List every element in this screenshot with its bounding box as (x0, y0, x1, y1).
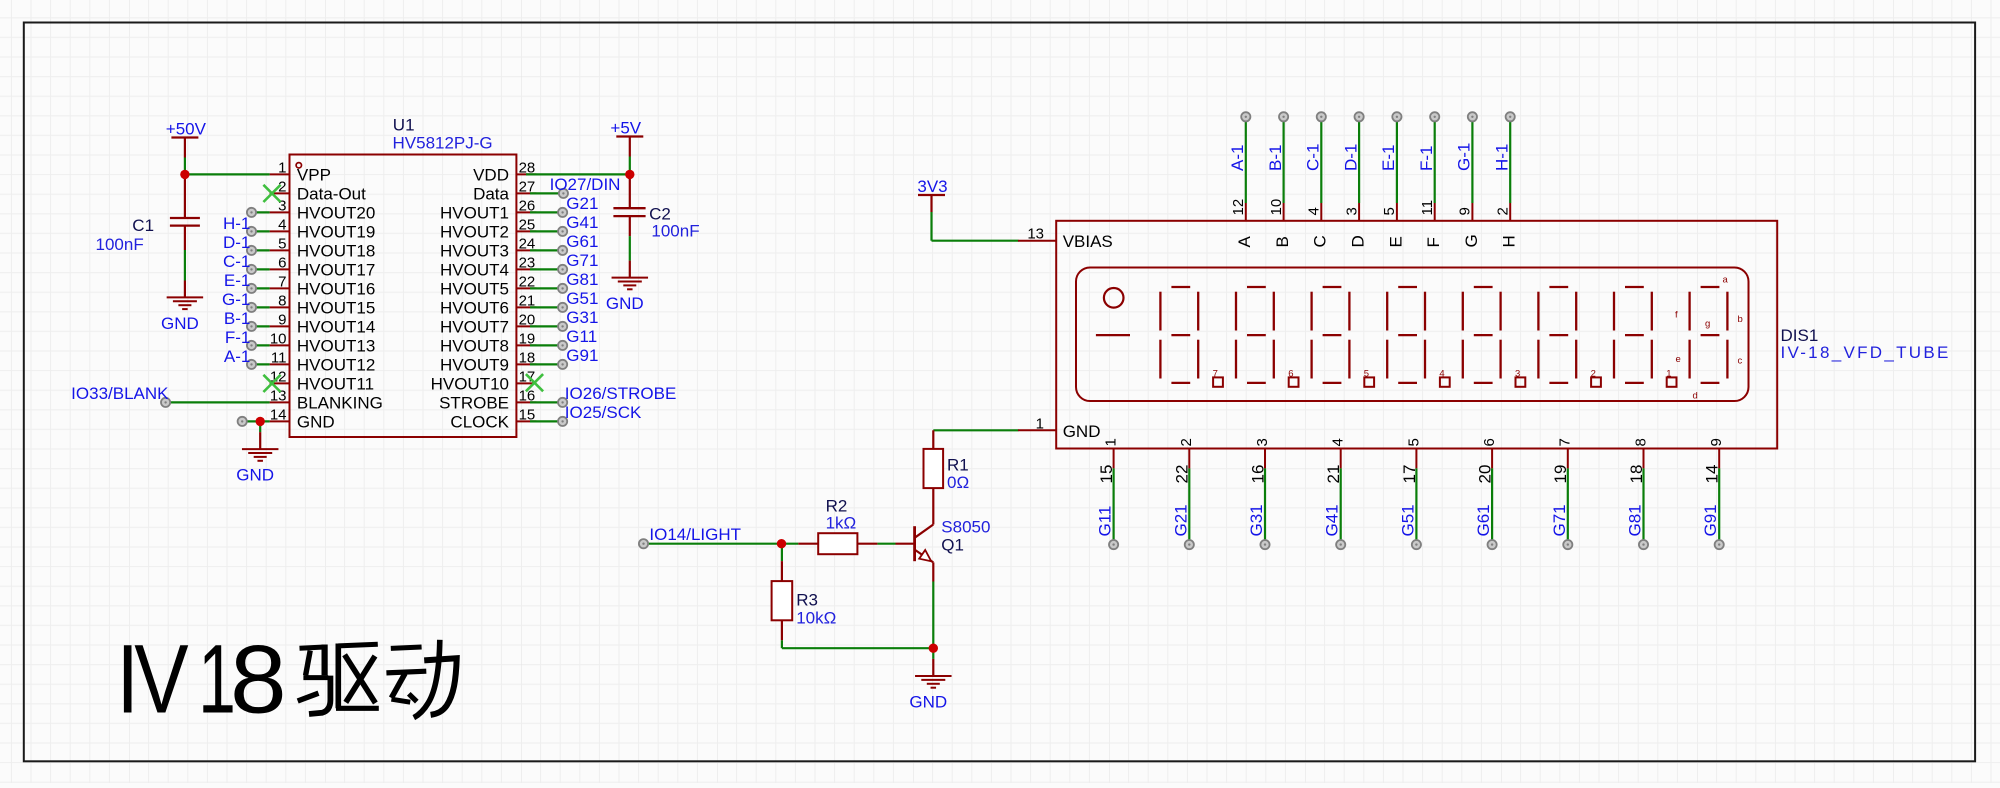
svg-text:G21: G21 (1171, 504, 1190, 536)
svg-text:GND: GND (606, 294, 644, 313)
svg-text:H: H (1500, 235, 1519, 247)
svg-text:G71: G71 (566, 251, 598, 270)
svg-text:12: 12 (1230, 199, 1247, 216)
svg-text:A: A (1235, 236, 1254, 248)
svg-text:5: 5 (1381, 207, 1398, 215)
svg-text:4: 4 (1330, 438, 1347, 446)
svg-text:HVOUT13: HVOUT13 (297, 337, 375, 356)
svg-text:G81: G81 (566, 270, 598, 289)
svg-text:S8050: S8050 (941, 518, 990, 537)
svg-text:Q1: Q1 (941, 535, 964, 554)
svg-text:7: 7 (1213, 368, 1218, 379)
svg-text:A-1: A-1 (1228, 145, 1247, 171)
svg-text:D-1: D-1 (1341, 144, 1360, 171)
svg-text:7: 7 (278, 273, 286, 290)
svg-text:E-1: E-1 (224, 271, 250, 290)
svg-text:100nF: 100nF (651, 222, 699, 241)
svg-text:4: 4 (1439, 368, 1444, 379)
svg-text:f: f (1675, 309, 1678, 320)
svg-text:U1: U1 (393, 116, 415, 135)
svg-text:HVOUT11: HVOUT11 (297, 375, 374, 394)
svg-text:B-1: B-1 (224, 309, 250, 328)
svg-text:C-1: C-1 (223, 252, 250, 271)
svg-text:G41: G41 (566, 213, 598, 232)
svg-text:G21: G21 (566, 194, 598, 213)
svg-text:3: 3 (1254, 438, 1271, 446)
svg-text:HVOUT10: HVOUT10 (431, 375, 509, 394)
svg-text:8: 8 (278, 292, 286, 309)
svg-text:15: 15 (1097, 465, 1116, 484)
svg-text:5: 5 (1405, 438, 1422, 446)
svg-text:HVOUT5: HVOUT5 (440, 280, 509, 299)
svg-text:G91: G91 (566, 346, 598, 365)
svg-text:2: 2 (1591, 368, 1596, 379)
svg-text:VPP: VPP (297, 166, 331, 185)
svg-text:HVOUT7: HVOUT7 (440, 318, 509, 337)
svg-text:G31: G31 (1247, 504, 1266, 536)
svg-text:IO27/DIN: IO27/DIN (550, 175, 621, 194)
svg-text:G11: G11 (1096, 506, 1115, 537)
svg-text:21: 21 (1324, 465, 1343, 484)
svg-text:GND: GND (909, 693, 947, 712)
svg-text:6: 6 (1481, 438, 1498, 446)
svg-text:2: 2 (1494, 207, 1511, 215)
svg-text:C-1: C-1 (1304, 144, 1323, 171)
svg-text:GND: GND (236, 466, 274, 485)
svg-text:9: 9 (278, 311, 286, 328)
svg-text:17: 17 (1400, 465, 1419, 484)
svg-text:b: b (1738, 314, 1743, 325)
svg-text:10: 10 (1268, 199, 1285, 216)
svg-text:13: 13 (1027, 226, 1044, 243)
svg-text:G81: G81 (1626, 504, 1645, 536)
svg-text:HVOUT14: HVOUT14 (297, 318, 375, 337)
svg-text:HVOUT3: HVOUT3 (440, 242, 509, 261)
svg-text:14: 14 (270, 406, 287, 423)
svg-text:14: 14 (1703, 465, 1722, 484)
svg-text:+5V: +5V (610, 118, 641, 137)
svg-text:1: 1 (1666, 368, 1671, 379)
svg-text:G61: G61 (1474, 504, 1493, 536)
svg-text:G-1: G-1 (1455, 143, 1474, 171)
svg-text:3: 3 (1343, 207, 1360, 215)
svg-text:6: 6 (278, 254, 286, 271)
svg-text:Data-Out: Data-Out (297, 185, 366, 204)
svg-text:R1: R1 (947, 456, 969, 475)
svg-text:1: 1 (1103, 438, 1120, 446)
svg-text:3: 3 (1515, 368, 1520, 379)
svg-text:CLOCK: CLOCK (450, 413, 509, 432)
svg-text:10kΩ: 10kΩ (796, 609, 836, 628)
svg-text:d: d (1693, 390, 1698, 401)
svg-text:C1: C1 (132, 216, 154, 235)
svg-text:19: 19 (1551, 465, 1570, 484)
svg-text:7: 7 (1557, 438, 1574, 446)
svg-text:HVOUT20: HVOUT20 (297, 204, 375, 223)
svg-text:1: 1 (278, 159, 286, 176)
svg-text:HVOUT17: HVOUT17 (297, 261, 375, 280)
svg-text:HVOUT4: HVOUT4 (440, 261, 509, 280)
svg-text:1: 1 (1036, 415, 1044, 432)
svg-text:HVOUT6: HVOUT6 (440, 299, 509, 318)
svg-text:H-1: H-1 (1492, 144, 1511, 171)
svg-text:22: 22 (1173, 465, 1192, 484)
svg-text:HVOUT18: HVOUT18 (297, 242, 375, 261)
svg-text:Data: Data (473, 185, 509, 204)
svg-text:c: c (1738, 356, 1743, 367)
svg-text:HVOUT8: HVOUT8 (440, 337, 509, 356)
svg-text:F-1: F-1 (1417, 146, 1436, 172)
svg-text:10: 10 (270, 330, 287, 347)
svg-text:5: 5 (1364, 368, 1369, 379)
svg-text:8: 8 (230, 626, 287, 734)
svg-text:G-1: G-1 (222, 290, 250, 309)
svg-text:STROBE: STROBE (439, 394, 509, 413)
svg-text:100nF: 100nF (96, 235, 144, 254)
svg-text:E: E (1386, 236, 1405, 247)
svg-text:G41: G41 (1323, 504, 1342, 536)
svg-text:IO14/LIGHT: IO14/LIGHT (649, 525, 741, 544)
svg-text:HVOUT1: HVOUT1 (440, 204, 509, 223)
svg-text:G: G (1462, 234, 1481, 247)
svg-text:+50V: +50V (166, 119, 207, 138)
svg-text:D: D (1349, 235, 1368, 247)
svg-text:IO33/BLANK: IO33/BLANK (71, 384, 169, 403)
svg-text:D-1: D-1 (223, 233, 250, 252)
svg-text:HV5812PJ-G: HV5812PJ-G (393, 133, 493, 152)
svg-text:B-1: B-1 (1266, 145, 1285, 171)
svg-text:e: e (1676, 354, 1681, 365)
svg-text:GND: GND (1063, 422, 1101, 441)
svg-text:G11: G11 (566, 327, 597, 346)
svg-text:IO25/SCK: IO25/SCK (565, 403, 642, 422)
svg-text:R3: R3 (796, 591, 818, 610)
svg-text:3V3: 3V3 (917, 177, 947, 196)
svg-text:2: 2 (1178, 438, 1195, 446)
svg-text:GND: GND (297, 413, 335, 432)
svg-text:1kΩ: 1kΩ (826, 514, 857, 533)
svg-text:B: B (1273, 236, 1292, 247)
svg-text:HVOUT12: HVOUT12 (297, 356, 375, 375)
svg-text:A-1: A-1 (224, 347, 250, 366)
svg-text:11: 11 (271, 349, 287, 366)
svg-text:F-1: F-1 (225, 328, 251, 347)
svg-text:F: F (1424, 237, 1443, 247)
svg-text:HVOUT15: HVOUT15 (297, 299, 375, 318)
svg-text:HVOUT9: HVOUT9 (440, 356, 509, 375)
svg-text:V: V (134, 625, 189, 733)
svg-text:4: 4 (1306, 207, 1323, 215)
svg-text:G71: G71 (1550, 504, 1569, 536)
svg-text:IO26/STROBE: IO26/STROBE (565, 384, 676, 403)
svg-text:G51: G51 (1398, 504, 1417, 536)
svg-text:HVOUT19: HVOUT19 (297, 223, 375, 242)
svg-text:11: 11 (1419, 200, 1436, 216)
svg-text:G91: G91 (1701, 504, 1720, 536)
svg-text:GND: GND (161, 314, 199, 333)
svg-text:G51: G51 (566, 289, 598, 308)
svg-text:H-1: H-1 (223, 214, 250, 233)
svg-text:C: C (1311, 235, 1330, 247)
svg-text:G31: G31 (566, 308, 598, 327)
svg-text:G61: G61 (566, 232, 598, 251)
svg-text:8: 8 (1632, 438, 1649, 446)
svg-text:g: g (1705, 319, 1710, 330)
svg-text:BLANKING: BLANKING (297, 394, 383, 413)
svg-text:4: 4 (278, 216, 286, 233)
svg-text:9: 9 (1708, 438, 1725, 446)
svg-text:IV-18_VFD_TUBE: IV-18_VFD_TUBE (1781, 343, 1951, 362)
svg-text:E-1: E-1 (1379, 145, 1398, 171)
svg-text:9: 9 (1457, 207, 1474, 215)
svg-text:HVOUT16: HVOUT16 (297, 280, 375, 299)
svg-text:VBIAS: VBIAS (1063, 232, 1113, 251)
svg-text:16: 16 (1248, 465, 1267, 484)
svg-text:a: a (1723, 275, 1729, 286)
svg-text:HVOUT2: HVOUT2 (440, 223, 509, 242)
svg-text:VDD: VDD (473, 166, 509, 185)
svg-text:5: 5 (278, 235, 286, 252)
svg-text:0Ω: 0Ω (947, 473, 969, 492)
svg-text:18: 18 (1627, 465, 1646, 484)
svg-text:20: 20 (1476, 465, 1495, 484)
svg-text:6: 6 (1288, 368, 1293, 379)
